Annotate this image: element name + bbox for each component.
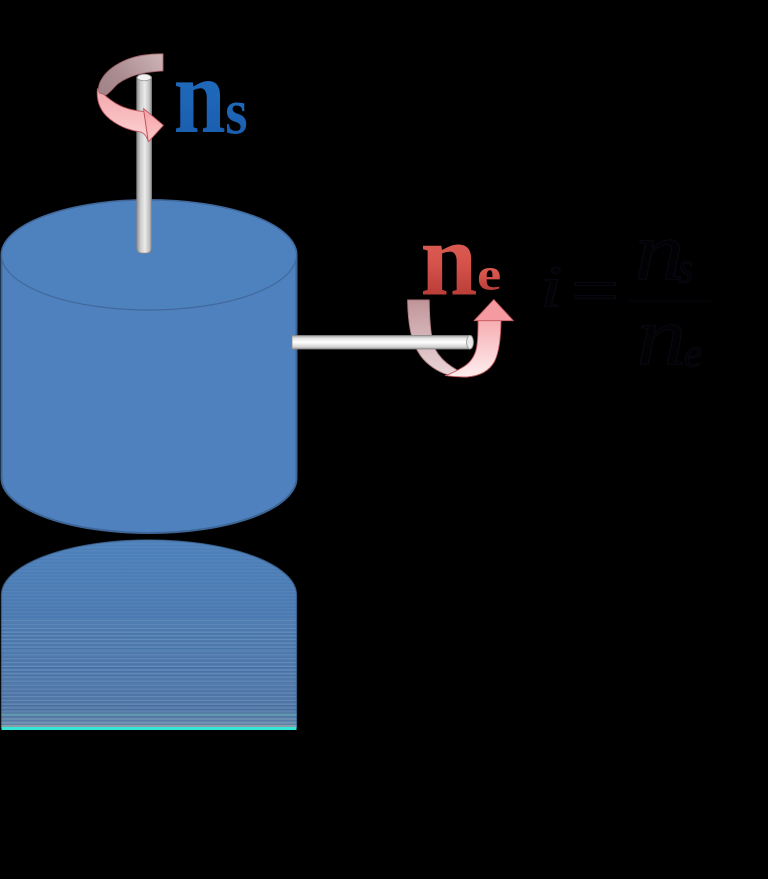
svg-text:i: i [540,255,562,320]
svg-text:n: n [174,36,226,155]
svg-text:n: n [637,290,687,383]
svg-text:s: s [225,76,247,149]
svg-text:e: e [477,249,501,300]
svg-text:n: n [420,200,477,318]
svg-text:=: = [571,255,620,326]
svg-text:s: s [678,245,693,293]
svg-text:e: e [684,330,703,375]
svg-text:n: n [635,205,685,298]
